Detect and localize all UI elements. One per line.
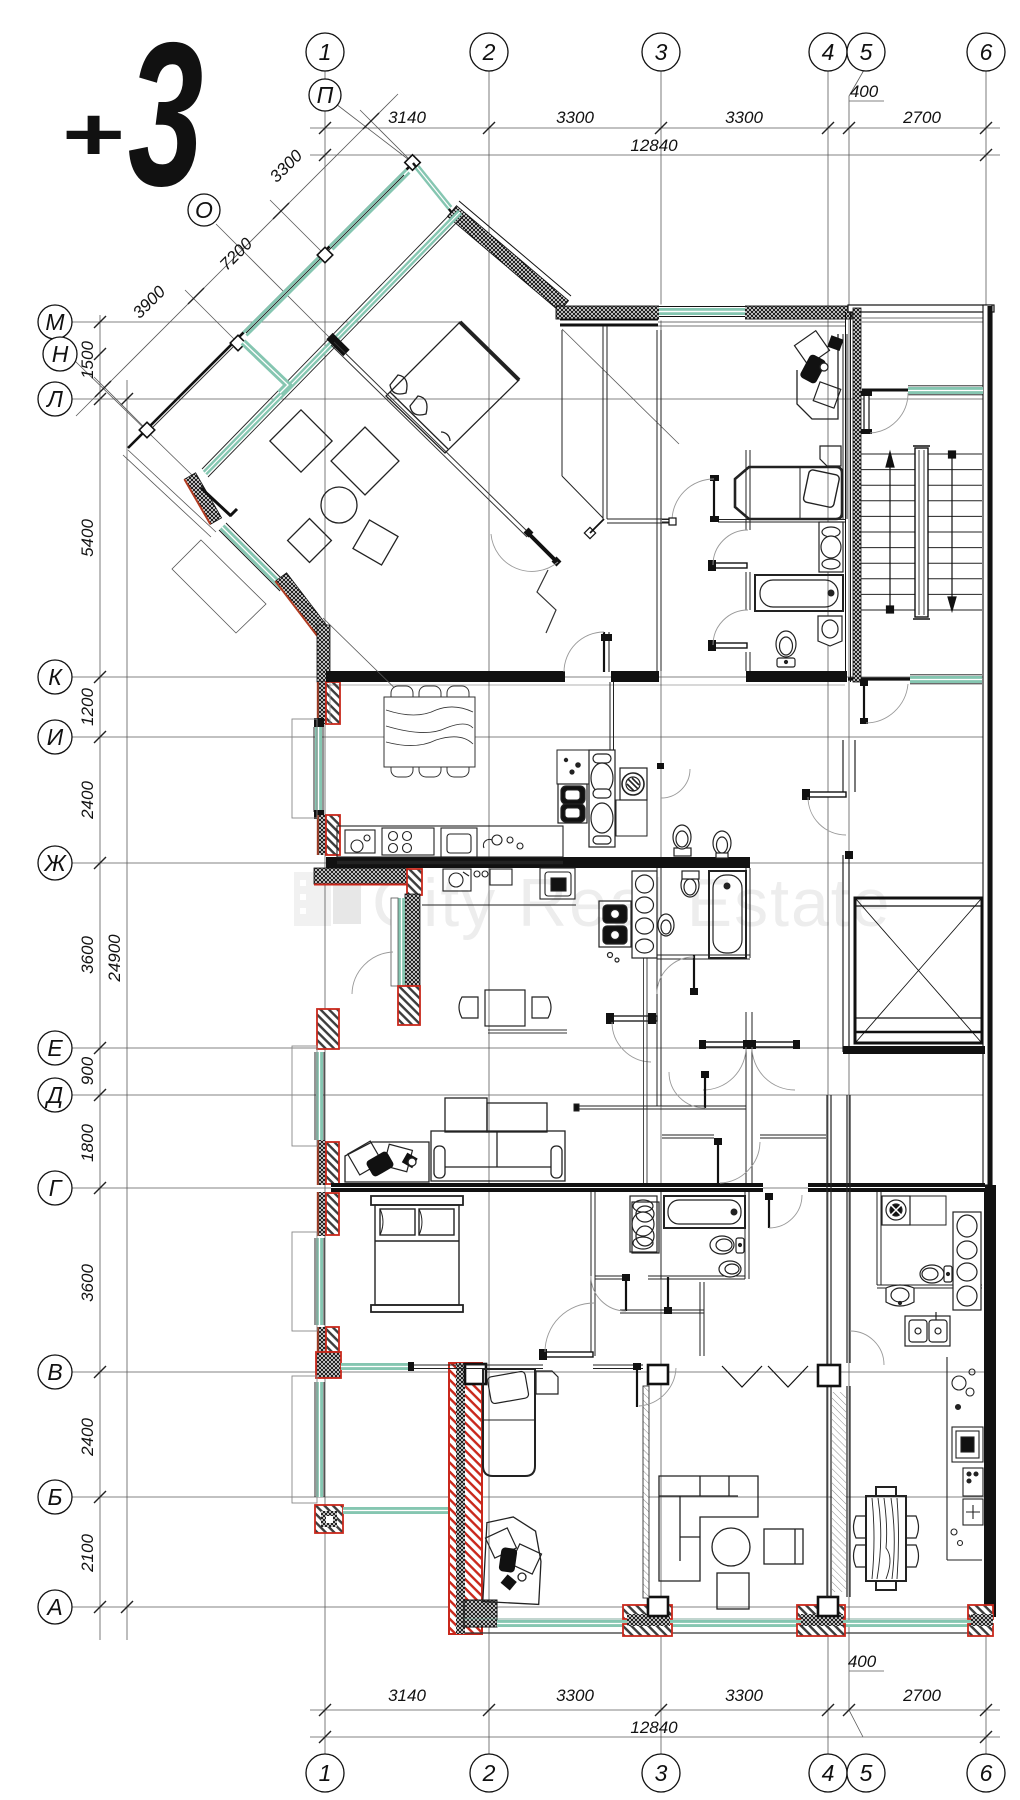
stairwell south wall with window bbox=[848, 677, 912, 680]
kitchen2 counter bbox=[422, 868, 576, 905]
bath1 tub bbox=[755, 575, 843, 611]
door living4 left bbox=[633, 1363, 676, 1407]
wing sofa group (rotated squares) bbox=[270, 405, 399, 565]
svg-text:400: 400 bbox=[850, 82, 879, 101]
window top of bedroom3 (horizontal teal) bbox=[341, 1362, 414, 1371]
svg-text:3140: 3140 bbox=[388, 108, 426, 127]
wing round table bbox=[321, 487, 357, 523]
short diagonal construction line bbox=[323, 618, 415, 708]
WC door bbox=[657, 763, 664, 769]
apt2 sofa bbox=[431, 1098, 565, 1181]
loggia glazing teal bbox=[391, 898, 405, 986]
svg-text:1200: 1200 bbox=[78, 688, 97, 726]
red column L1 bbox=[317, 682, 340, 724]
axis M horizontal bbox=[72, 321, 462, 323]
lobby wall x843 segments bbox=[843, 740, 855, 1052]
apt2 desk bbox=[345, 1141, 429, 1182]
svg-text:5400: 5400 bbox=[78, 519, 97, 557]
red column L6 bbox=[317, 1327, 339, 1352]
bedroom3 bed bbox=[483, 1369, 535, 1476]
top exterior hatched wall bbox=[556, 306, 852, 319]
svg-text:И: И bbox=[47, 724, 64, 750]
DIMENSION CHAINS TOP bbox=[310, 101, 1000, 155]
axis A horizontal bbox=[72, 1606, 990, 1608]
stairwell west hatched wall bbox=[853, 308, 861, 682]
doors on y1276 wall bbox=[591, 1274, 703, 1314]
axis L horizontal bbox=[72, 398, 990, 400]
kitchen3 washer unit bbox=[632, 1202, 659, 1253]
kitchen1 fridge column bbox=[589, 750, 615, 847]
bottom wall band with glazing bbox=[464, 1619, 993, 1633]
stair down arrow bbox=[948, 451, 956, 611]
red corner block bbox=[407, 869, 422, 895]
red block bottom of loggia wall bbox=[398, 986, 420, 1025]
partition bedroom3/living x643 (hatched light) bbox=[643, 1386, 649, 1598]
loggia/stair window wall bbox=[862, 389, 908, 392]
svg-text:3300: 3300 bbox=[556, 1686, 594, 1705]
red column L7 with white core bbox=[315, 1505, 343, 1533]
wing NW exterior wall line bbox=[128, 163, 413, 448]
svg-text:А: А bbox=[45, 1594, 62, 1620]
column axis V at x819 bbox=[818, 1365, 840, 1386]
corner block at axis V bbox=[316, 1352, 341, 1378]
svg-text:О: О bbox=[195, 197, 213, 223]
kitchen4 hall stub bbox=[620, 1309, 704, 1311]
red column L2 bbox=[317, 815, 340, 855]
DIMENSION CHAIN LEFT bbox=[100, 315, 127, 1640]
bar counter line bbox=[488, 1030, 567, 1033]
loggia door arc bbox=[352, 952, 393, 994]
door kitchen1 top left bbox=[329, 682, 331, 724]
corridor wall x746 bbox=[745, 1012, 747, 1042]
svg-text:2400: 2400 bbox=[78, 1418, 97, 1457]
kitchen4 tall cabinet bbox=[953, 1212, 981, 1310]
axis K horizontal bbox=[72, 676, 990, 678]
bath2 door bbox=[657, 955, 698, 995]
stair up arrow bbox=[886, 452, 894, 613]
door bedroom1 bbox=[672, 475, 719, 522]
right exterior wall lower (thick black) bbox=[984, 1185, 996, 1617]
bath2 toilet bbox=[681, 871, 699, 897]
wall x657 dining/bedroom bbox=[656, 330, 658, 671]
svg-text:12840: 12840 bbox=[630, 136, 678, 155]
window to red wall (horizontal teal) bbox=[343, 1507, 450, 1514]
living4 corner sofa bbox=[659, 1476, 758, 1581]
hall wall x607 to 672 at y519 bbox=[607, 518, 672, 520]
svg-text:1: 1 bbox=[319, 39, 332, 65]
DIMENSION CHAIN DIAGONAL (wing) bbox=[76, 94, 413, 430]
column axis V at x649 bbox=[648, 1365, 668, 1384]
kitchen4 walls bbox=[876, 1192, 878, 1285]
table2 with chairs bbox=[459, 990, 551, 1026]
elevator shaft bottom wall bbox=[843, 1046, 985, 1054]
kitchen2 door leaf bbox=[606, 1013, 657, 1062]
kitchen2 double sink bbox=[599, 901, 631, 962]
axis 1 vertical bbox=[324, 71, 326, 1754]
axis 4 vertical bbox=[827, 71, 829, 1754]
svg-text:2700: 2700 bbox=[902, 108, 941, 127]
top-right room inner edge lines bbox=[862, 317, 983, 319]
wall axis G right segment bbox=[808, 1183, 985, 1192]
top-right thin exterior wall bbox=[848, 305, 994, 312]
lobby door y793 bbox=[802, 789, 846, 835]
red column L5 bbox=[317, 1192, 339, 1236]
bath3 tub bbox=[664, 1196, 745, 1228]
bath3 box walls bbox=[660, 1192, 662, 1279]
bath2 south wall bbox=[657, 954, 750, 956]
bedroom3 desk bbox=[483, 1516, 543, 1605]
apt3 wall y1276 stubs bbox=[595, 1275, 625, 1277]
svg-text:П: П bbox=[317, 82, 334, 108]
floor label +3 bbox=[60, 0, 203, 229]
apt3 partition x591 bbox=[590, 1192, 592, 1356]
wing rotated bed bbox=[386, 322, 519, 453]
bath3 toilet bbox=[710, 1236, 744, 1254]
red column L4 bbox=[317, 1140, 339, 1185]
balcony room door bbox=[861, 391, 908, 434]
bath3 cabinet column bbox=[630, 1196, 657, 1252]
bath3 bidet bbox=[719, 1261, 741, 1277]
svg-text:3600: 3600 bbox=[78, 936, 97, 974]
kitchen exterior hatched wall bbox=[314, 868, 408, 884]
bedroom1 south wall bbox=[662, 519, 670, 521]
svg-text:6: 6 bbox=[980, 39, 993, 65]
top wall window white gap bbox=[659, 305, 745, 321]
window left w2 bbox=[315, 1052, 324, 1140]
svg-text:5: 5 bbox=[860, 1760, 873, 1786]
bedroom3 shelf bbox=[536, 1371, 558, 1394]
door bedroom3 top bbox=[539, 1303, 594, 1360]
dining table 1 bbox=[384, 686, 475, 777]
svg-text:М: М bbox=[45, 309, 65, 335]
wing SW glazing teal bbox=[219, 523, 287, 591]
svg-text:12840: 12840 bbox=[630, 1718, 678, 1737]
svg-text:1800: 1800 bbox=[78, 1124, 97, 1162]
wing SW hatched wall piece B bbox=[275, 573, 328, 636]
svg-text:2100: 2100 bbox=[78, 1534, 97, 1573]
loggia hatched wall vertical bbox=[405, 894, 420, 1025]
svg-text:2: 2 bbox=[482, 1760, 496, 1786]
axis 3 vertical bbox=[660, 71, 662, 1754]
K wall lower thin line bbox=[326, 684, 845, 686]
wall y1136 with door x718 bbox=[662, 1135, 826, 1138]
break zigzag line bbox=[537, 570, 556, 633]
duct wall x644 bbox=[644, 958, 648, 1183]
axis 2 vertical bbox=[488, 71, 490, 1754]
bottom bedrooms top wall y1357 bbox=[414, 1364, 543, 1366]
bottom red column B1 bbox=[623, 1597, 672, 1636]
living4 round table bbox=[712, 1528, 750, 1566]
svg-text:Г: Г bbox=[49, 1175, 63, 1201]
svg-text:3300: 3300 bbox=[725, 108, 763, 127]
wing NW glazing teal band bbox=[152, 171, 408, 428]
wing NE hatched wall band bbox=[448, 206, 569, 312]
top ceiling edge thin lines bbox=[560, 319, 658, 321]
kitchen1 counter bbox=[337, 826, 563, 863]
door to bedroom1 top right jamb bbox=[669, 518, 676, 525]
bath1 west wall bbox=[745, 450, 747, 530]
interior diagonal line bbox=[562, 329, 679, 444]
kitchen1 side wall bbox=[610, 682, 614, 750]
bottom red column B3 (corner) bbox=[968, 1605, 993, 1636]
right exterior wall upper (double line) bbox=[983, 305, 992, 1185]
svg-text:2700: 2700 bbox=[902, 1686, 941, 1705]
kitchen1 sink unit bbox=[557, 750, 589, 823]
svg-text:1500: 1500 bbox=[78, 341, 97, 379]
bidet 1 bbox=[713, 831, 731, 858]
svg-text:2400: 2400 bbox=[78, 781, 97, 820]
svg-text:В: В bbox=[47, 1359, 62, 1385]
stair lobby door bbox=[860, 680, 908, 724]
wall axis K right segment bbox=[746, 671, 847, 682]
wing node squares bbox=[139, 155, 420, 438]
svg-text:5: 5 bbox=[860, 39, 873, 65]
svg-text:3300: 3300 bbox=[725, 1686, 763, 1705]
DIMENSION CHAINS BOTTOM bbox=[310, 1671, 1000, 1737]
svg-text:3: 3 bbox=[655, 39, 668, 65]
door in K wall (dining to hall) bbox=[564, 632, 612, 672]
wing bed wardrobe lines bbox=[523, 384, 549, 410]
door leaf on inner glazing bbox=[326, 333, 349, 356]
wing NE wall upper (glazed) bbox=[413, 163, 452, 213]
axis I horizontal bbox=[72, 736, 990, 738]
bath1 door upper bbox=[708, 530, 748, 571]
bath2 bidet bbox=[658, 914, 674, 936]
svg-text:3300: 3300 bbox=[556, 108, 594, 127]
svg-text:Н: Н bbox=[52, 341, 69, 367]
axis G horizontal bbox=[72, 1187, 990, 1189]
AXIS CIRCLES LEFT bbox=[38, 305, 77, 1624]
window left w3 bbox=[315, 1238, 324, 1325]
bath2 tub vertical bbox=[709, 871, 746, 958]
wall axis K mid segment bbox=[611, 671, 659, 682]
wall axis G left segment bbox=[331, 1183, 763, 1192]
window left w1 bbox=[314, 718, 324, 819]
wing inner glazing (balcony partition) bbox=[202, 207, 463, 477]
small glazed vestibule teal L bbox=[243, 342, 288, 393]
svg-text:900: 900 bbox=[78, 1056, 97, 1085]
hall2 wall y1106 bbox=[576, 1105, 746, 1107]
partition P1 bedroom/living (axis O wall) bbox=[331, 342, 530, 537]
red column L3 bbox=[317, 1009, 339, 1049]
svg-text:2: 2 bbox=[482, 39, 496, 65]
svg-text:Л: Л bbox=[45, 386, 63, 412]
kitchen5 strip right bbox=[947, 1357, 983, 1560]
bath1 sink column bbox=[819, 522, 843, 572]
kitchen4 pedestal sink bbox=[886, 1285, 914, 1306]
svg-text:1: 1 bbox=[319, 1760, 332, 1786]
svg-text:К: К bbox=[48, 664, 63, 690]
bath1 bidet bbox=[818, 616, 842, 646]
apt2 double bed bbox=[371, 1196, 463, 1312]
axis 6 vertical bbox=[985, 71, 987, 1754]
bedroom1 single bed bbox=[735, 467, 842, 519]
axis N diagonal bbox=[75, 361, 194, 477]
svg-text:Ж: Ж bbox=[43, 850, 67, 876]
closet wall x603-607 bbox=[602, 326, 604, 519]
bath1 door lower bbox=[708, 610, 748, 651]
kitchen1 washer bbox=[616, 768, 647, 836]
svg-text:Д: Д bbox=[44, 1082, 63, 1108]
living4 ottoman bbox=[717, 1573, 749, 1609]
left dim labels bbox=[78, 341, 124, 1573]
door x705 y1074 bbox=[669, 1071, 709, 1108]
bedroom1 desk bbox=[794, 331, 843, 419]
living4 chair square bbox=[764, 1529, 803, 1564]
axis 5 vertical bbox=[849, 70, 864, 1737]
svg-text:6: 6 bbox=[980, 1760, 993, 1786]
svg-text:3140: 3140 bbox=[388, 1686, 426, 1705]
svg-text:+: + bbox=[60, 92, 123, 176]
bottom red column B2 bbox=[797, 1597, 845, 1636]
axis V horizontal bbox=[72, 1371, 990, 1373]
wing SW thick corner wall bbox=[201, 488, 231, 516]
dining3 table bbox=[854, 1487, 919, 1590]
wall axis Zh bbox=[326, 857, 750, 868]
terrace edge thin lines bbox=[123, 450, 266, 633]
window left w4 bbox=[315, 1382, 324, 1497]
closet wall x562 bbox=[561, 330, 563, 476]
bath2 east wall bbox=[745, 868, 747, 958]
svg-text:3: 3 bbox=[655, 1760, 668, 1786]
svg-text:Е: Е bbox=[47, 1035, 63, 1061]
stair stringer bbox=[913, 446, 930, 619]
axis E horizontal bbox=[72, 1047, 990, 1049]
bath1 toilet bbox=[776, 631, 796, 667]
bath3 door bbox=[765, 1193, 802, 1228]
closet chamfer bbox=[562, 476, 603, 518]
door on axis O wall bbox=[530, 535, 557, 562]
toilet 1 bbox=[673, 825, 691, 856]
svg-text:Б: Б bbox=[48, 1484, 63, 1510]
kitchen4 double sink bbox=[905, 1312, 950, 1346]
watermark logo squares bbox=[294, 872, 361, 926]
top wall window teal bbox=[659, 308, 745, 315]
kitchen4 toilet bbox=[920, 1265, 952, 1283]
column block bottom bbox=[464, 1600, 497, 1627]
svg-text:24900: 24900 bbox=[105, 934, 124, 983]
door jamb hall bbox=[584, 527, 595, 538]
inter-apartment wall x827-850 bbox=[827, 1095, 850, 1597]
axis Zh horizontal bbox=[72, 862, 990, 864]
bedroom1 closet bbox=[820, 446, 841, 466]
wardrobe zigzag marks bbox=[722, 1366, 808, 1387]
axis P diagonal leader bbox=[336, 104, 413, 163]
axis B horizontal bbox=[72, 1496, 990, 1498]
svg-text:400: 400 bbox=[848, 1652, 877, 1671]
left wall hatched top segment bbox=[317, 625, 330, 682]
kitchen4 washer bbox=[882, 1196, 946, 1225]
AXIS CIRCLES TOP bbox=[188, 33, 1005, 226]
svg-text:3: 3 bbox=[128, 0, 203, 229]
bedroom1 east wall bbox=[842, 334, 844, 519]
wall axis K left segment bbox=[326, 671, 565, 682]
axis O diagonal line bbox=[216, 224, 334, 342]
door arc living4 right bbox=[850, 1331, 884, 1365]
axis D horizontal bbox=[72, 1094, 990, 1096]
column block top bbox=[465, 1364, 486, 1384]
AXIS CIRCLES BOTTOM bbox=[306, 1754, 1005, 1792]
hall3 wall x700 bbox=[699, 1282, 701, 1356]
wing SW hatched wall piece A bbox=[184, 473, 221, 525]
svg-text:3600: 3600 bbox=[78, 1264, 97, 1302]
wall x657 kitchen2/bath2 bbox=[656, 868, 658, 1106]
svg-text:4: 4 bbox=[822, 1760, 835, 1786]
corridor double door bbox=[699, 1040, 800, 1090]
kitchen2 tall unit bbox=[632, 871, 657, 958]
window sill ledges outside left wall bbox=[292, 719, 317, 1503]
svg-text:4: 4 bbox=[822, 39, 835, 65]
